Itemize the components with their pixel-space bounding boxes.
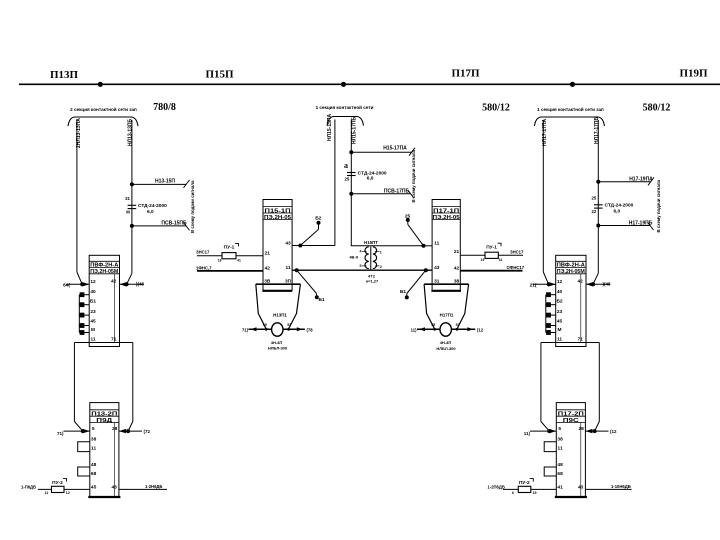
svg-text:НЛ15-17ПБ: НЛ15-17ПБ [352, 116, 358, 144]
cabinet П13-2П column divider [113, 423, 115, 498]
jumper loop 38-11 of П17-2П [544, 442, 556, 452]
svg-text:40: 40 [90, 289, 96, 295]
end slash Н13-15П [184, 180, 190, 188]
svg-text:42: 42 [265, 266, 271, 272]
wire ЗНС17 to fuse ПУ-1 left [197, 255, 263, 257]
disconnector Б1 left blade [297, 270, 317, 293]
bottom terminal row line of right cab [541, 342, 599, 344]
svg-text:11: 11 [45, 491, 49, 495]
control wire with fuse ПУ-2 right [503, 488, 556, 490]
cabinet П17-1П funnel top bar [424, 283, 469, 285]
svg-text:45: 45 [263, 323, 267, 327]
transformer Н15ПТ secondary winding [373, 247, 377, 269]
bus junction node at post П15/П17 [341, 82, 346, 87]
svg-text:4Н-4П: 4Н-4П [440, 340, 452, 345]
wire: middle feeder drop left [334, 120, 336, 246]
svg-text:11: 11 [558, 446, 563, 452]
node on plug line 71 [81, 429, 85, 433]
jumper loop 48-68 of П13-2П [78, 467, 90, 476]
top feeder bus wire [19, 83, 720, 85]
node: tap junction НС13 lower [130, 224, 134, 228]
end slash ПСВ-17ПБ middle [408, 190, 414, 198]
svg-text:68: 68 [91, 471, 97, 477]
svg-text:6,0: 6,0 [367, 176, 374, 182]
svg-text:71: 71 [111, 336, 117, 342]
svg-text:28: 28 [112, 426, 118, 432]
svg-text:СТД-24-2000: СТД-24-2000 [358, 170, 387, 176]
cabinet П15-1П header row 2 [263, 212, 292, 214]
feeder funnel П15 right side [289, 284, 301, 328]
svg-text:23: 23 [90, 309, 96, 315]
svg-text:11: 11 [90, 336, 95, 342]
svg-text:Н13-15П: Н13-15П [155, 179, 175, 185]
svg-text:ЗНС17: ЗНС17 [196, 250, 210, 255]
svg-text:38: 38 [557, 436, 563, 442]
wire: right drop below П13-1П [132, 343, 134, 422]
node: tap junction НС13 upper [130, 182, 134, 186]
wire: diagonal into П17-2П right [595, 422, 600, 432]
end slash Н17-19ПБ [648, 222, 654, 230]
svg-text:3П: 3П [285, 278, 292, 284]
stub contact 5 of П13-1П [79, 332, 89, 334]
outgoing wire 1-2Н6ДБ right of П13-2П [119, 488, 167, 490]
wire: 43 feed from middle bracket [292, 245, 335, 247]
svg-text:11: 11 [285, 265, 290, 271]
svg-text:ПУ-1: ПУ-1 [486, 244, 497, 250]
svg-text:580/12: 580/12 [643, 103, 671, 114]
svg-text:П17-1П: П17-1П [433, 208, 459, 214]
svg-text:П17П: П17П [451, 68, 480, 80]
switchgear cabinet П15-1П outline [263, 200, 292, 291]
svg-text:71): 71) [57, 431, 64, 436]
svg-text:ПУ-2: ПУ-2 [519, 480, 530, 486]
cabinet П13-2П header row 1 [90, 409, 119, 411]
wire: transformer HV feed [351, 245, 424, 247]
svg-text:580/12: 580/12 [482, 103, 510, 114]
svg-text:22: 22 [592, 209, 597, 214]
tap wire Н15-17ПА [351, 151, 411, 153]
svg-text:64(: 64( [63, 282, 70, 288]
plug contact line 11 left of П17-2П [530, 430, 556, 432]
svg-text:Н15-17ПА: Н15-17ПА [383, 146, 407, 152]
wire: left feeder drop П19 A [542, 120, 544, 272]
svg-text:ПУ-1: ПУ-1 [224, 245, 235, 251]
feeder funnel П17 left side [424, 284, 434, 328]
cabinet П17-1П thick base [431, 290, 461, 292]
svg-text:ПЭ,2Н-05: ПЭ,2Н-05 [264, 215, 291, 221]
svg-text:М: М [91, 327, 95, 333]
feeder funnel П17 right side [457, 284, 468, 328]
svg-text:21: 21 [454, 249, 460, 255]
svg-text:45: 45 [431, 323, 435, 327]
cabinet П17-1П header row 2 [432, 212, 460, 214]
svg-text:)(48: )(48 [603, 282, 611, 287]
switchgear cabinet П17-1П outline [432, 200, 460, 291]
fuse ПУ-1 right body [485, 252, 498, 258]
svg-text:25: 25 [345, 177, 350, 182]
cabinet П13-1П header row 1 [89, 260, 119, 262]
heavy wire 1ФНС,7 [197, 270, 263, 272]
funnel foot node right П17 [456, 328, 459, 331]
funnel foot node right [287, 328, 290, 331]
svg-text:ПЭ,2Н-05: ПЭ,2Н-05 [433, 215, 460, 221]
arrester СТД-24-2000 bars [594, 204, 603, 206]
cabinet П15-1П funnel top bar [256, 283, 301, 285]
svg-text:(78: (78 [307, 328, 314, 333]
wire ЗНС17 with fuse ПУ-1 right [460, 254, 523, 256]
switchgear cabinet П13-2П outline [90, 403, 119, 497]
svg-text:СТД-24-2000: СТД-24-2000 [138, 203, 167, 209]
svg-text:В схему подачи сигнала: В схему подачи сигнала [411, 149, 416, 202]
cabinet П13-2П thick base [88, 496, 120, 498]
svg-text:41: 41 [499, 258, 503, 262]
disconnector 25 contact [406, 218, 410, 222]
svg-text:П15П: П15П [205, 69, 234, 81]
tap wire ПСВ-17ПБ middle [351, 193, 410, 195]
svg-text:6,0: 6,0 [147, 209, 154, 215]
svg-text:Б1: Б1 [318, 297, 324, 303]
disconnector Б1 right blade [407, 270, 426, 293]
cabinet П15-1П header row 1 [263, 206, 292, 208]
svg-text:1-П6ДБ: 1-П6ДБ [21, 485, 36, 490]
stub contact 3 of right cab [546, 314, 556, 316]
svg-text:a: a [344, 161, 348, 170]
end slash Н17-19ПА [648, 177, 654, 185]
svg-text:4: 4 [360, 250, 362, 254]
svg-text:Б2: Б2 [556, 299, 562, 305]
svg-text:5: 5 [360, 264, 362, 268]
svg-text:42: 42 [454, 266, 460, 272]
svg-text:12: 12 [557, 279, 563, 285]
earthing stub bus of П13-1П [78, 295, 80, 333]
track rail wire right of Н13П1 [283, 328, 305, 330]
removable-link mark [63, 479, 67, 482]
wire: diagonal into П17-1П right cab left [543, 272, 548, 284]
svg-text:71): 71) [242, 328, 249, 333]
svg-text:11: 11 [434, 240, 439, 246]
cabinet П13-2П header row 2 [90, 415, 119, 417]
svg-text:48: 48 [91, 462, 97, 468]
heavy interconnection wire (track feeder) [292, 269, 432, 271]
svg-text:31: 31 [125, 196, 130, 201]
catenary section bracket П15-П17 [327, 117, 364, 126]
svg-text:45: 45 [91, 485, 97, 491]
cabinet П17-1Пс header row 1 [556, 260, 586, 262]
removable-link mark right [530, 479, 534, 482]
disconnector 25 blade [408, 224, 424, 245]
switchgear cabinet П13-1П outline [89, 255, 119, 346]
svg-text:(12: (12 [477, 328, 484, 333]
end slash ПСВ-15ПБ [184, 222, 190, 230]
bottom terminal row line of П13-1П [74, 342, 132, 344]
svg-text:5: 5 [558, 426, 561, 432]
plug contact line 72 right of П13-2П [119, 430, 142, 432]
svg-text:51: 51 [456, 323, 460, 327]
node on plug line 48 [125, 282, 129, 286]
svg-text:Н15ПТ: Н15ПТ [364, 240, 378, 245]
plug contact line 21 left of right cab [533, 283, 556, 285]
svg-text:НЛБЛ-300: НЛБЛ-300 [268, 346, 288, 351]
earthing stub bus of right cab [545, 295, 547, 333]
svg-text:1: 1 [380, 251, 382, 255]
node left on track feeder [295, 268, 299, 272]
svg-text:51: 51 [287, 323, 291, 327]
svg-text:Н17-19ПА: Н17-19ПА [629, 176, 653, 182]
node: middle tap junction upper [349, 150, 353, 154]
outgoing wire 1-10Н6ДБ [585, 488, 631, 490]
svg-text:ПСВ-15ПБ: ПСВ-15ПБ [161, 221, 187, 227]
svg-text:43: 43 [112, 485, 118, 491]
svg-text:38: 38 [91, 436, 97, 442]
svg-text:19: 19 [533, 491, 537, 495]
svg-text:СТД-24-2000: СТД-24-2000 [605, 203, 634, 209]
tap wire Н17-19ПА [598, 181, 650, 183]
stub contact 5 of right cab [546, 332, 556, 334]
svg-text:4В-9: 4В-9 [349, 254, 358, 259]
svg-text:М: М [126, 210, 130, 215]
removable-link mark ПУ-1 left [235, 243, 239, 246]
stub contact 2 of right cab [546, 304, 556, 306]
heavy wire ОФНС17 [460, 270, 522, 272]
node at disconnector 25 [422, 244, 426, 248]
wire: right feeder drop П19 B [597, 120, 599, 273]
bus junction node at post П13 [98, 82, 103, 87]
end slash Н15-17ПА [409, 148, 415, 156]
stub contact 1 of П13-1П [79, 294, 89, 296]
svg-text:1-2П6ДБ: 1-2П6ДБ [488, 484, 505, 489]
svg-text:н=1,27: н=1,27 [366, 278, 379, 283]
svg-text:11): 11) [524, 431, 531, 436]
fuse ПУ-1 left body [222, 253, 236, 259]
disconnector Б2 blade [300, 229, 318, 245]
wire: diagonal into П13-2П right [128, 422, 133, 432]
jumper loop 48-68 of П17-2П [544, 467, 556, 476]
node on plug line 64 [80, 282, 84, 286]
svg-text:В схему подачи сигнала: В схему подачи сигнала [656, 179, 661, 232]
svg-text:(12: (12 [610, 429, 617, 434]
cabinet П13-1П header row 2 [89, 267, 119, 269]
svg-text:Н17П1: Н17П1 [440, 312, 454, 317]
svg-text:28: 28 [579, 426, 585, 432]
catenary section bracket П19 [534, 117, 604, 126]
fuse ПУ-2 right body [518, 486, 531, 492]
svg-text:25: 25 [592, 196, 597, 201]
node on plug line 12 [593, 429, 597, 433]
disconnector Б2 contact [317, 221, 321, 225]
stub contact 1 of right cab [546, 294, 556, 296]
node on plug line 11 [547, 429, 551, 433]
svg-text:11: 11 [557, 336, 562, 342]
svg-text:М: М [558, 327, 562, 333]
svg-text:1 секция контактной сети зап: 1 секция контактной сети зап [537, 106, 604, 112]
wire: left drop below П13-1П [73, 343, 75, 422]
svg-text:Б2: Б2 [315, 216, 321, 222]
svg-text:25: 25 [405, 213, 411, 219]
wire: right drop below right cab [598, 343, 600, 422]
svg-text:ЗНС17: ЗНС17 [510, 249, 524, 254]
svg-text:42: 42 [578, 279, 584, 285]
tap wire ПСВ-15ПБ [132, 225, 186, 227]
svg-text:)(48: )(48 [136, 282, 144, 287]
svg-text:3В: 3В [264, 278, 271, 284]
removable-link mark ПУ-1 right [498, 243, 502, 246]
svg-text:19: 19 [218, 259, 222, 263]
plug contact line 48 right of right cab [586, 283, 610, 285]
cabinet П17-2П column divider [580, 423, 582, 498]
svg-text:23: 23 [557, 309, 563, 315]
stub contact 4 of right cab [546, 325, 556, 327]
svg-text:11: 11 [91, 446, 96, 452]
svg-text:43: 43 [578, 485, 584, 491]
svg-text:2: 2 [380, 265, 382, 269]
rotary converter Н17П1 body [440, 323, 451, 336]
svg-text:ОФНС17: ОФНС17 [507, 265, 525, 270]
wire: diagonal into П17-2П left [541, 422, 549, 432]
svg-text:4Н-4П: 4Н-4П [271, 340, 283, 345]
svg-text:71: 71 [578, 336, 584, 342]
svg-text:38: 38 [454, 278, 460, 284]
svg-text:2 секция контактной сети зап: 2 секция контактной сети зап [70, 106, 137, 112]
catenary section bracket П13 [68, 117, 138, 126]
svg-text:42: 42 [111, 279, 117, 285]
svg-text:5: 5 [92, 426, 95, 432]
feeder funnel П15 left side [256, 284, 266, 328]
node: middle tap junction lower [349, 192, 353, 196]
wire: diagonal into switch A1 right [127, 273, 132, 284]
cabinet П17-1Пс column divider [580, 274, 582, 343]
svg-text:НЛ13-13ПБ: НЛ13-13ПБ [128, 118, 134, 146]
svg-text:21: 21 [265, 250, 271, 256]
svg-text:45: 45 [557, 318, 563, 324]
node on 43 feed [298, 244, 302, 248]
bus junction node at post П17/П19 [570, 82, 575, 87]
tap wire Н13-15П [132, 183, 186, 185]
svg-text:НЛБЛ-300: НЛБЛ-300 [436, 346, 456, 351]
wire: left drop below right cab [540, 343, 542, 422]
svg-text:НЛ17-17ПБ: НЛ17-17ПБ [594, 116, 600, 144]
cabinet П17-2П header row 1 [556, 409, 585, 411]
svg-text:НЛ15-15ПА: НЛ15-15ПА [327, 113, 333, 141]
svg-text:П13П: П13П [50, 69, 79, 81]
node on plug line 48 right [591, 282, 595, 286]
node: tap junction НС17 lower [596, 224, 600, 228]
cabinet П13-1П column divider [113, 274, 115, 343]
jumper loop 38-11 of П13-2П [78, 442, 90, 452]
funnel foot node left П17 [433, 328, 436, 331]
svg-text:1-10Н6ДБ: 1-10Н6ДБ [611, 484, 631, 489]
stub contact 3 of П13-1П [79, 314, 89, 316]
transformer Н15ПТ core [370, 246, 372, 269]
svg-text:ПСВ-17ПБ: ПСВ-17ПБ [384, 189, 410, 195]
svg-text:31: 31 [434, 278, 440, 284]
wire: left feeder drop П13 A [76, 120, 78, 272]
svg-text:68: 68 [557, 471, 563, 477]
svg-text:43: 43 [285, 240, 291, 246]
svg-text:В схему подачи сигнала: В схему подачи сигнала [190, 180, 195, 233]
svg-text:48: 48 [557, 462, 563, 468]
node: tap junction НС17 upper [596, 180, 600, 184]
cabinet П17-2П header row 2 [556, 415, 585, 417]
cabinet П17-1П header row 1 [432, 206, 460, 208]
cabinet П17-2П thick base [555, 496, 587, 498]
wire: right feeder drop П13 B [131, 120, 133, 273]
plug contact line 71 left of П13-2П [64, 430, 90, 432]
svg-text:12: 12 [90, 279, 96, 285]
svg-text:780/8: 780/8 [153, 102, 176, 113]
cabinet П17-1Пс header row 2 [556, 267, 586, 269]
stub contact 4 of П13-1П [79, 325, 89, 327]
funnel foot node left [265, 328, 268, 331]
control wire with fuse ПУ-2 left [38, 488, 90, 490]
wire: diagonal into cab right [593, 273, 598, 284]
svg-text:П19П: П19П [679, 68, 708, 80]
svg-text:1 секция контактной сети: 1 секция контактной сети [316, 104, 374, 110]
track rail wire left of Н13П1 [249, 328, 272, 330]
svg-text:45: 45 [90, 318, 96, 324]
svg-text:1-2Н6ДБ: 1-2Н6ДБ [145, 484, 162, 489]
svg-text:П15-1П: П15-1П [265, 208, 291, 214]
plug contact line 12 right of П17-2П [585, 430, 608, 432]
svg-text:ПУ-2: ПУ-2 [52, 480, 63, 486]
svg-text:6: 6 [512, 491, 514, 495]
tap wire Н17-19ПБ [598, 225, 650, 227]
switchgear cabinet П17-1Пс outline [556, 255, 586, 346]
arrester СТД-24-2000 bars [128, 204, 137, 206]
svg-text:43: 43 [434, 265, 440, 271]
rotary converter Н13П1 body [272, 323, 283, 336]
node on plug line 21 [547, 282, 551, 286]
node on plug line 72 [126, 429, 130, 433]
transformer Н15ПТ primary winding [365, 247, 369, 269]
svg-text:Б1: Б1 [400, 289, 406, 295]
svg-text:41: 41 [237, 259, 241, 263]
track rail wire right of Н17П1 [451, 328, 475, 330]
svg-text:12: 12 [66, 491, 70, 495]
arrester СТД-24-2000 bars [347, 172, 356, 174]
stub contact 2 of П13-1П [79, 304, 89, 306]
wire: diagonal into switch A1 left [77, 272, 82, 284]
disconnector Б1 right contact [405, 295, 409, 299]
svg-text:(72: (72 [144, 429, 151, 434]
svg-text:6,0: 6,0 [614, 208, 621, 214]
track rail wire left of Н17П1 [417, 328, 440, 330]
disconnector Б1 left contact [315, 295, 319, 299]
plug contact line 64 left of П13-1П [66, 283, 89, 285]
node right on track feeder [424, 268, 428, 272]
plug contact line 48 right of П13-1П [120, 283, 144, 285]
svg-text:41: 41 [557, 485, 563, 491]
svg-text:Н17-19ПБ: Н17-19ПБ [629, 220, 653, 226]
svg-text:11): 11) [411, 328, 417, 333]
svg-text:1ФНС,7: 1ФНС,7 [196, 265, 212, 270]
fuse ПУ-2 left body [52, 486, 65, 492]
wire: diagonal into П13-2П left [74, 422, 82, 432]
cabinet П15-1П thick base [262, 290, 292, 292]
wire: middle feeder drop right [350, 120, 352, 246]
svg-text:Н13П1: Н13П1 [273, 312, 287, 317]
svg-text:40: 40 [557, 289, 563, 295]
svg-text:21(: 21( [530, 282, 537, 288]
switchgear cabinet П17-2П outline [556, 403, 585, 497]
svg-text:Б1: Б1 [90, 299, 96, 305]
svg-text:19: 19 [481, 258, 485, 262]
